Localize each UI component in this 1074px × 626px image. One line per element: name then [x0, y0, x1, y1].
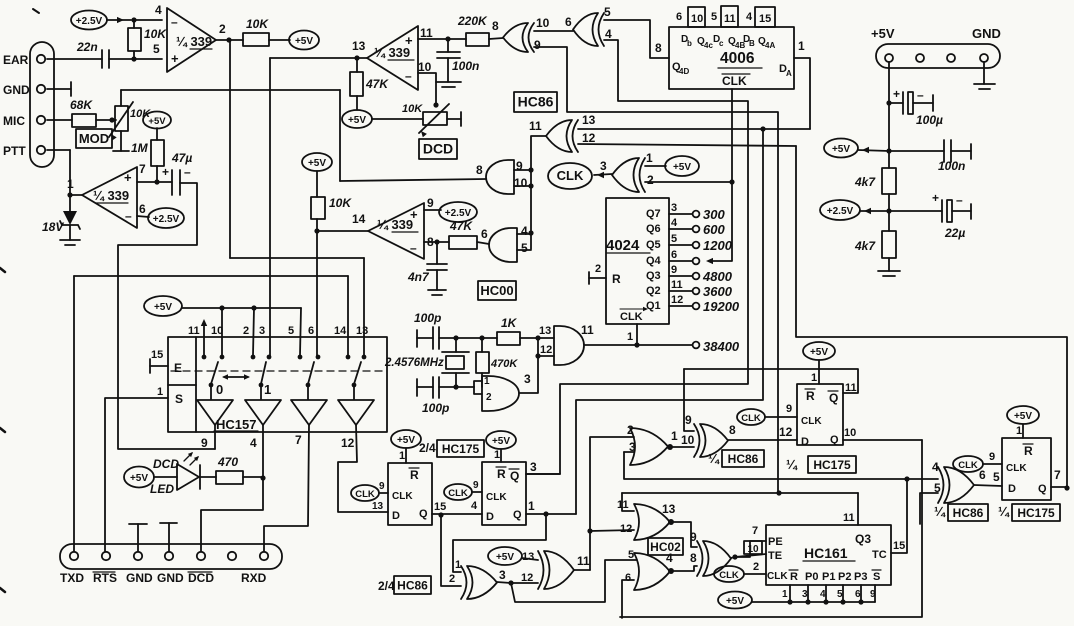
- wire R to node: [243, 476, 263, 478]
- svg-text:RTS: RTS: [93, 571, 117, 585]
- svg-text:1: 1: [627, 331, 633, 343]
- supply +5V: [1007, 406, 1039, 424]
- node: [886, 100, 891, 105]
- wire to nor1 in12: [590, 530, 634, 531]
- wire out9: [214, 425, 216, 449]
- svg-text:¼: ¼: [998, 504, 1010, 519]
- node contact: [267, 355, 272, 360]
- connector J3 power: [876, 44, 1000, 68]
- node pin: [70, 552, 78, 560]
- node pin13: [354, 55, 359, 60]
- wire 2.4576MHz clock out: [584, 344, 692, 346]
- svg-text:6: 6: [671, 249, 677, 261]
- supply +5V: [391, 430, 421, 448]
- svg-text:1: 1: [67, 177, 74, 191]
- wire E stub: [150, 365, 168, 367]
- svg-text:¼ 339: ¼ 339: [374, 45, 410, 60]
- wire Qbar to xor in9: [684, 369, 858, 393]
- svg-text:+: +: [162, 165, 169, 179]
- net CLK: [953, 456, 983, 472]
- svg-text:3: 3: [802, 589, 808, 600]
- svg-text:+5V: +5V: [726, 596, 744, 607]
- svg-text:13: 13: [662, 502, 676, 516]
- label HC86: [948, 504, 988, 521]
- wire MIC to R 68K: [47, 119, 72, 121]
- wire Q3 net to in11: [622, 493, 634, 511]
- svg-text:PTT: PTT: [3, 144, 26, 158]
- svg-text:S: S: [873, 571, 880, 583]
- bubble: [668, 519, 674, 525]
- svg-text:7: 7: [295, 433, 302, 447]
- svg-text:P0: P0: [805, 571, 818, 583]
- svg-text:+5V: +5V: [1014, 411, 1032, 422]
- svg-text:Q3: Q3: [855, 532, 871, 546]
- xor gate U3b: [538, 551, 544, 589]
- svg-text:4: 4: [671, 217, 678, 229]
- svg-text:4: 4: [820, 589, 826, 600]
- switch blade: [308, 362, 314, 384]
- IC HC161: [766, 525, 891, 585]
- wire mode arrow: [224, 376, 248, 378]
- wire GND: [983, 62, 985, 84]
- svg-text:–: –: [184, 165, 191, 179]
- svg-text:P3: P3: [854, 571, 867, 583]
- svg-text:Q: Q: [829, 391, 838, 405]
- buffer amplifier: [245, 400, 281, 425]
- svg-text:10: 10: [418, 60, 432, 74]
- wire divider: [195, 337, 197, 432]
- svg-text:10: 10: [681, 433, 695, 447]
- wire to mux pin6: [316, 231, 318, 356]
- svg-text:Q: Q: [1038, 483, 1047, 495]
- supply +5V: [289, 31, 319, 50]
- svg-text:600: 600: [703, 222, 725, 237]
- node DA net: [760, 126, 765, 131]
- svg-text:2.4576MHz: 2.4576MHz: [384, 357, 444, 369]
- svg-text:8: 8: [476, 163, 483, 177]
- node pin: [102, 552, 110, 560]
- supply +5V: [486, 431, 516, 449]
- svg-text:4: 4: [666, 551, 673, 565]
- label DCD: [419, 139, 457, 159]
- svg-text:HC86: HC86: [728, 452, 759, 466]
- svg-text:13: 13: [539, 325, 551, 337]
- svg-text:P1: P1: [822, 571, 835, 583]
- node pin8: [434, 239, 439, 244]
- node Q7: [1064, 485, 1069, 490]
- wire in2 baud select: [645, 181, 732, 183]
- wire in13 to 4006 DA net: [578, 128, 810, 130]
- svg-text:9: 9: [427, 196, 434, 210]
- node +5V tap: [886, 148, 891, 153]
- svg-text:9: 9: [685, 413, 692, 427]
- wire out7 to RXD: [264, 425, 309, 551]
- svg-text:+5V: +5V: [308, 158, 326, 169]
- op-amp U1D 1/4 339: [367, 26, 418, 90]
- svg-text:3: 3: [524, 372, 531, 386]
- xor gate U6c: [938, 467, 944, 503]
- svg-text:R: R: [410, 468, 419, 482]
- svg-text:22µ: 22µ: [944, 226, 965, 240]
- svg-text:6: 6: [855, 589, 861, 600]
- wire xor6 out to xor in10: [534, 30, 573, 32]
- svg-text:9: 9: [870, 589, 876, 600]
- svg-text:HC00: HC00: [480, 283, 513, 298]
- IC 4024: [606, 198, 669, 324]
- scan mark: [0, 588, 5, 592]
- svg-text:11: 11: [671, 279, 683, 291]
- svg-text:1: 1: [494, 449, 500, 461]
- svg-text:9: 9: [786, 403, 792, 415]
- svg-text:6: 6: [565, 15, 572, 29]
- label HC00: [478, 281, 516, 300]
- wire TXD vertical: [73, 276, 75, 551]
- wire pot bottom: [120, 131, 122, 151]
- svg-text:100n: 100n: [452, 59, 479, 73]
- svg-text:2/4: 2/4: [378, 579, 395, 593]
- svg-text:4: 4: [521, 224, 528, 238]
- svg-text:Q: Q: [513, 509, 522, 521]
- capacitor 100p (top): [416, 330, 418, 347]
- svg-text:6: 6: [625, 572, 631, 584]
- IC HC175 FF3: [1002, 438, 1051, 500]
- bubble: [667, 444, 673, 450]
- svg-text:14: 14: [334, 325, 347, 337]
- node contact: [202, 355, 207, 360]
- node pin: [197, 552, 205, 560]
- svg-text:HC86: HC86: [518, 94, 554, 110]
- svg-text:R: R: [806, 389, 815, 403]
- svg-text:12: 12: [779, 425, 793, 439]
- wire nor3 out to xor in8: [674, 566, 697, 571]
- wire Q3 net: [622, 492, 858, 494]
- wire to pin14: [347, 276, 349, 356]
- svg-text:14: 14: [352, 212, 366, 226]
- svg-text:1: 1: [1016, 425, 1022, 437]
- svg-text:11: 11: [581, 323, 594, 337]
- wire TC to feedback: [891, 479, 907, 553]
- wire to pin13: [363, 258, 365, 356]
- resistor 1M: [151, 140, 164, 166]
- wire vertical to mux pin3: [269, 58, 271, 356]
- svg-text:+5V: +5V: [295, 36, 313, 47]
- svg-text:+5V: +5V: [148, 116, 166, 127]
- wire clk: [379, 492, 388, 494]
- net CLK: [444, 484, 472, 500]
- svg-text:1: 1: [671, 429, 678, 443]
- wire to op-amp pin4: [134, 19, 162, 21]
- xor gate U6b: [697, 541, 703, 576]
- svg-text:LED: LED: [150, 482, 174, 496]
- node: [587, 528, 592, 533]
- svg-text:GND: GND: [126, 571, 153, 585]
- wire EAR to C 22n: [47, 58, 102, 60]
- svg-text:5: 5: [153, 42, 160, 56]
- ground: [168, 523, 170, 551]
- wire DCD to connector: [201, 478, 263, 551]
- svg-text:47K: 47K: [365, 77, 389, 91]
- svg-text:15: 15: [434, 501, 446, 513]
- svg-text:4800: 4800: [702, 269, 733, 284]
- supply +5V: [143, 112, 171, 129]
- node xor3 out: [508, 580, 513, 585]
- svg-text:P2: P2: [838, 571, 851, 583]
- svg-text:+: +: [171, 51, 179, 66]
- connector J2 serial: [60, 544, 282, 569]
- svg-text:¼ 339: ¼ 339: [176, 34, 212, 49]
- node contact: [316, 355, 321, 360]
- crystal 2.4576MHz: [446, 356, 464, 369]
- svg-text:470K: 470K: [490, 358, 518, 370]
- xor gate U3a: [461, 566, 467, 599]
- supply +5V: [718, 592, 752, 609]
- wire in3 stub: [624, 451, 634, 453]
- wire xor in4 to FF Q3-bar: [526, 40, 748, 474]
- svg-text:+5V: +5V: [810, 347, 828, 358]
- resistor 47K: [449, 236, 477, 249]
- ground: [436, 81, 461, 83]
- wire out12 to FF D: [338, 425, 388, 512]
- svg-text:13: 13: [522, 551, 534, 563]
- svg-text:100p: 100p: [414, 311, 441, 325]
- wire pin10 to wiper: [418, 73, 436, 105]
- svg-text:Q1: Q1: [646, 300, 661, 312]
- svg-text:+2.5V: +2.5V: [153, 214, 180, 225]
- node PTT comparator out: [67, 192, 72, 197]
- pin box 10: [688, 7, 705, 27]
- wire Q to bottom bus: [620, 440, 922, 617]
- svg-text:–: –: [405, 69, 412, 83]
- wire 4006 CLK: [731, 89, 733, 182]
- svg-text:+5V: +5V: [130, 473, 148, 484]
- node contact: [251, 355, 256, 360]
- connector J1 EAR/GND/MIC/PTT: [30, 42, 54, 167]
- svg-text:9: 9: [671, 264, 677, 276]
- wire S stub: [874, 585, 876, 602]
- wire TXD bus: [74, 275, 348, 277]
- node 38400: [693, 342, 700, 349]
- wire to TE: [735, 554, 766, 557]
- resistor 10K: [311, 197, 325, 219]
- svg-text:HC86: HC86: [397, 579, 428, 593]
- svg-text:6: 6: [308, 325, 314, 337]
- svg-text:+5V: +5V: [492, 436, 510, 447]
- node pin: [134, 552, 142, 560]
- svg-text:2: 2: [753, 561, 759, 573]
- IC 4006: [669, 27, 794, 89]
- svg-text:4k7: 4k7: [854, 175, 876, 189]
- wire out: [574, 569, 590, 571]
- resistor 470K: [476, 352, 489, 373]
- svg-text:12: 12: [540, 344, 552, 356]
- ground: [137, 524, 139, 551]
- wire pin11 out: [418, 38, 448, 40]
- net CLK: [548, 163, 592, 189]
- svg-text:¼: ¼: [708, 451, 720, 466]
- net CLK: [737, 409, 765, 425]
- svg-text:1: 1: [484, 376, 490, 387]
- svg-text:¼: ¼: [934, 504, 946, 519]
- wire pin6: [137, 216, 149, 217]
- buffer amplifier: [197, 400, 233, 425]
- potentiometer MOD 10K: [115, 106, 128, 131]
- svg-text:Q: Q: [830, 434, 839, 446]
- svg-text:CLK: CLK: [486, 492, 507, 503]
- IC HC175 FF0: [388, 463, 432, 525]
- svg-text:E: E: [174, 361, 182, 375]
- switch blade: [261, 362, 266, 384]
- svg-text:100p: 100p: [422, 401, 449, 415]
- resistor 1K: [497, 332, 520, 345]
- svg-text:CLK: CLK: [392, 491, 413, 502]
- svg-text:HC161: HC161: [804, 545, 848, 561]
- svg-text:5: 5: [628, 549, 634, 561]
- svg-text:9: 9: [201, 436, 208, 450]
- nand gate U5c: [489, 228, 517, 262]
- svg-text:CLK: CLK: [355, 489, 375, 500]
- wire LED to R: [200, 476, 216, 478]
- svg-text:15: 15: [893, 540, 905, 552]
- svg-text:+: +: [932, 191, 939, 205]
- svg-text:PE: PE: [768, 536, 783, 548]
- svg-text:CLK: CLK: [620, 311, 643, 323]
- capacitor 100n: [447, 39, 449, 52]
- svg-text:2: 2: [627, 423, 634, 437]
- svg-text:9: 9: [690, 530, 697, 544]
- nand gate U5b (buffer): [554, 326, 584, 365]
- svg-text:220K: 220K: [457, 14, 488, 28]
- svg-text:c: c: [719, 39, 724, 48]
- wire nor1 out to xor in10: [673, 446, 694, 448]
- svg-text:8: 8: [690, 551, 697, 565]
- svg-text:HC175: HC175: [1017, 506, 1055, 520]
- svg-text:38400: 38400: [703, 339, 740, 354]
- svg-text:10K: 10K: [144, 27, 167, 41]
- svg-text:1M: 1M: [131, 141, 149, 155]
- svg-text:1: 1: [646, 151, 653, 165]
- wire Q15 to D4: [432, 513, 482, 515]
- svg-text:5: 5: [521, 241, 528, 255]
- supply +5V: [342, 110, 372, 128]
- supply +2.5V: [71, 11, 107, 30]
- capacitor 4n7: [436, 242, 438, 264]
- svg-text:HC175: HC175: [813, 458, 851, 472]
- xor gate clock driver (out 3): [640, 158, 646, 192]
- svg-text:1: 1: [264, 382, 271, 397]
- svg-text:10: 10: [536, 16, 550, 30]
- wire Q15 to xor in2: [441, 515, 461, 586]
- ground: [878, 270, 900, 272]
- resistor 10K (ref): [128, 28, 141, 51]
- label HC86: [514, 92, 557, 112]
- wire to xor4 in12: [511, 582, 538, 584]
- svg-text:EAR: EAR: [3, 53, 29, 67]
- wire to pin10: [221, 308, 223, 355]
- node DCD: [260, 475, 265, 480]
- nand gate U5d: [486, 160, 514, 194]
- node pin: [260, 552, 268, 560]
- wire to LED: [154, 476, 177, 478]
- svg-text:R: R: [497, 467, 506, 481]
- resistor 47K: [350, 72, 363, 96]
- wire osc out to buffer: [519, 338, 538, 393]
- wire pot top to TX line: [120, 90, 122, 106]
- svg-text:B: B: [749, 39, 755, 48]
- svg-text:D: D: [392, 510, 400, 522]
- op-amp U1C 1/4 339: [368, 203, 424, 259]
- wire to R 10K: [229, 39, 243, 41]
- nor gate U4b (out 13): [634, 504, 670, 540]
- svg-text:GND: GND: [3, 83, 30, 97]
- supply +5V: [144, 296, 182, 316]
- supply +5V out: [824, 139, 858, 158]
- svg-text:100µ: 100µ: [916, 113, 943, 127]
- pin box 11: [721, 6, 738, 27]
- node op-amp1 out: [226, 37, 231, 42]
- svg-text:Q2: Q2: [646, 285, 661, 297]
- node contact: [298, 355, 303, 360]
- node contact: [220, 355, 225, 360]
- supply +2.5V out: [820, 200, 860, 220]
- svg-text:+: +: [893, 87, 900, 101]
- svg-text:100n: 100n: [938, 159, 965, 173]
- wire TX data horizontal: [121, 89, 340, 91]
- svg-text:15: 15: [151, 349, 163, 361]
- svg-text:10: 10: [747, 544, 759, 555]
- svg-text:11: 11: [577, 554, 590, 568]
- wire to nor in5: [511, 560, 637, 602]
- svg-text:8: 8: [655, 41, 662, 55]
- resistor 4k7: [882, 168, 896, 194]
- ground: [60, 239, 80, 241]
- svg-text:¼: ¼: [786, 457, 798, 472]
- svg-text:4: 4: [605, 27, 612, 41]
- svg-text:R: R: [790, 571, 798, 583]
- svg-text:DCD: DCD: [153, 457, 179, 471]
- wire horizontal: [230, 257, 364, 259]
- svg-text:9: 9: [989, 451, 995, 463]
- svg-text:+2.5V: +2.5V: [827, 206, 854, 217]
- wire Q stub: [1051, 486, 1067, 488]
- svg-text:12: 12: [341, 436, 355, 450]
- node preset: [805, 599, 810, 604]
- node ref divider: [131, 17, 136, 22]
- svg-text:1: 1: [528, 499, 535, 513]
- wire to PE: [735, 541, 766, 557]
- svg-text:MOD: MOD: [79, 131, 109, 146]
- wire S to RTS: [105, 398, 168, 551]
- svg-text:Q5: Q5: [646, 239, 661, 251]
- switch blade: [354, 362, 361, 384]
- wire Q1 out: [526, 513, 576, 515]
- svg-text:CLK: CLK: [719, 570, 739, 581]
- node pin: [165, 552, 173, 560]
- wire R to +5V: [269, 39, 290, 41]
- wire to 4006 pin1: [794, 58, 810, 129]
- wire clk: [983, 463, 1002, 465]
- svg-text:5: 5: [604, 5, 611, 19]
- svg-text:TE: TE: [768, 550, 782, 562]
- IC HC175 FF1: [482, 462, 526, 525]
- svg-text:Q7: Q7: [646, 208, 661, 220]
- wire CLK stub: [636, 324, 638, 345]
- svg-text:5: 5: [671, 233, 677, 245]
- svg-text:3: 3: [499, 568, 506, 582]
- svg-text:Q3: Q3: [646, 270, 661, 282]
- svg-text:2: 2: [486, 392, 492, 403]
- svg-text:9: 9: [473, 480, 479, 491]
- wire clk: [765, 416, 797, 418]
